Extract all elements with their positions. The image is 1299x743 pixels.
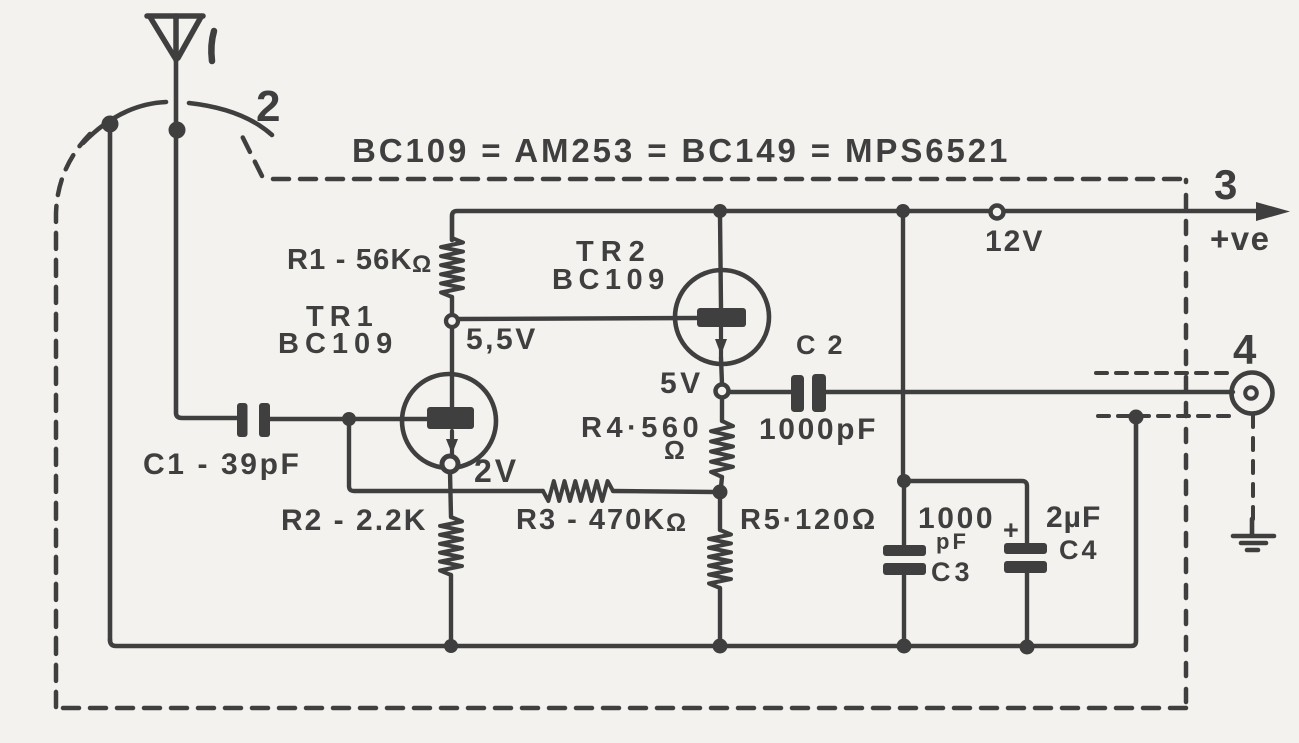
svg-text:2: 2 xyxy=(256,82,280,131)
svg-text:1000pF: 1000pF xyxy=(759,413,878,446)
svg-text:BC109: BC109 xyxy=(278,328,398,360)
svg-text:R1 - 56K: R1 - 56K xyxy=(287,244,413,276)
transistor TR1 xyxy=(402,374,496,468)
junction dot R5 at ground rail xyxy=(713,639,728,654)
transistor TR2 xyxy=(675,270,769,364)
junction dot antenna lead at screen xyxy=(169,122,186,139)
svg-text:BC109: BC109 xyxy=(552,264,670,296)
svg-text:5,5V: 5,5V xyxy=(466,323,538,356)
wire antenna lead down to C1 xyxy=(176,58,237,418)
svg-text:Ω: Ω xyxy=(664,435,685,465)
node 5.5V open circle xyxy=(446,315,458,327)
wire 5.5V node to TR1 collector xyxy=(450,328,454,407)
svg-text:R3 - 470K: R3 - 470K xyxy=(516,504,666,536)
junction dot TR2 collector at rail xyxy=(713,204,727,218)
node 5V open circle xyxy=(716,385,729,398)
wire TR2 emitter to 5V node xyxy=(721,358,722,384)
resistor R4 xyxy=(711,421,733,477)
junction dot C3 at ground rail xyxy=(897,639,912,654)
resistor R3 xyxy=(543,481,613,501)
svg-text:Ω: Ω xyxy=(666,509,686,537)
node 2V open circle TR1 emitter xyxy=(442,456,458,472)
coax shield dashed (lower) xyxy=(1098,414,1231,418)
label 1 xyxy=(211,31,214,61)
svg-text:C3: C3 xyxy=(931,557,974,587)
screen arc 2 (solid) xyxy=(83,102,166,143)
junction dot supply branch at rail xyxy=(896,204,910,218)
junction dot C3/C4 branch xyxy=(897,474,911,488)
svg-text:4: 4 xyxy=(1233,326,1257,373)
svg-text:Ω: Ω xyxy=(412,251,431,278)
dashed screened enclosure xyxy=(56,134,1186,708)
svg-text:12V: 12V xyxy=(985,225,1044,258)
antenna aerial 1 xyxy=(147,16,203,60)
wire C2 output to connector 4 xyxy=(826,390,1233,394)
svg-text:+: + xyxy=(1003,515,1019,545)
wire TR2 collector to rail xyxy=(720,215,721,308)
wire 5V node to C2 xyxy=(729,390,791,394)
svg-text:2µF: 2µF xyxy=(1046,501,1101,534)
junction dot R2 at ground rail xyxy=(444,639,458,653)
wire TR1 emitter to R2 xyxy=(450,472,451,517)
capacitor C2 xyxy=(791,375,804,412)
resistor R2 xyxy=(440,517,462,575)
wire base junction down to R3 xyxy=(349,419,543,491)
svg-text:BC109 = AM253 = BC149 = MPS652: BC109 = AM253 = BC149 = MPS6521 xyxy=(352,132,1010,169)
ground symbol xyxy=(1233,519,1274,550)
dashed wire connector to ground xyxy=(1251,415,1255,521)
wire C1 to base junction xyxy=(270,417,345,421)
junction dot C4 at ground rail xyxy=(1020,640,1035,655)
capacitor C3 xyxy=(883,545,926,556)
junction dot screen-to-ground wire xyxy=(102,116,119,133)
wire screen to ground rail (left vertical) xyxy=(108,124,113,640)
junction dot ground rail to shield xyxy=(1129,410,1144,425)
arrowhead supply rail xyxy=(1256,202,1290,221)
wire ground rail (bottom) xyxy=(110,420,1136,646)
svg-text:C4: C4 xyxy=(1059,535,1100,565)
wire TR1 collector node to TR2 base xyxy=(459,318,697,319)
svg-text:R5·120Ω: R5·120Ω xyxy=(740,504,878,536)
svg-text:5V: 5V xyxy=(660,367,704,400)
junction dot R4/R5/R3 node xyxy=(713,485,728,500)
resistor R1 xyxy=(441,238,463,297)
node 12V open circle xyxy=(991,206,1004,219)
svg-text:2V: 2V xyxy=(474,453,519,489)
capacitor C1 xyxy=(237,403,248,437)
wire supply branch to decoupling caps xyxy=(901,211,905,478)
wire branch down to C3 xyxy=(902,481,906,545)
svg-text:3: 3 xyxy=(1214,161,1237,208)
wire base junction to TR1 base xyxy=(349,417,427,421)
coax shield dashed (upper) xyxy=(1096,371,1236,375)
svg-text:C2: C2 xyxy=(796,330,855,360)
svg-text:R2 - 2.2K: R2 - 2.2K xyxy=(281,504,427,537)
resistor R5 xyxy=(718,492,722,530)
wire +ve supply rail xyxy=(452,211,1262,240)
wire 5V node to R4 xyxy=(720,398,724,421)
svg-text:pF: pF xyxy=(936,529,969,554)
wire branch to C4 xyxy=(904,481,1027,543)
svg-text:+ve: +ve xyxy=(1210,220,1270,257)
capacitor C4 electrolytic xyxy=(1004,543,1047,554)
connector socket 4 xyxy=(1232,373,1273,414)
junction dot TR1 base node xyxy=(342,412,356,426)
svg-text:C1 - 39pF: C1 - 39pF xyxy=(143,448,301,481)
